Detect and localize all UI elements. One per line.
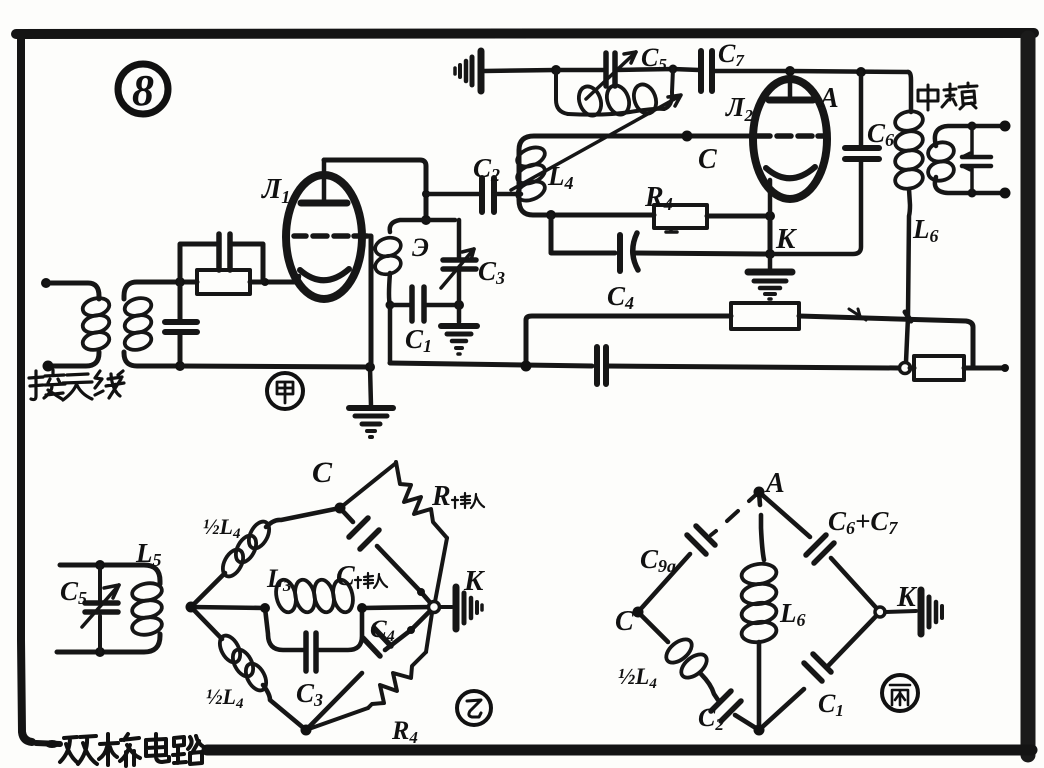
circled jia label: [267, 373, 303, 409]
C4 bridge plates: [363, 628, 391, 656]
wire grid bus top: [519, 136, 753, 215]
junction bottom wire: [175, 361, 185, 371]
C5 plates: [85, 603, 118, 612]
wire anode bus to IF: [790, 71, 908, 72]
svg-text:½L4: ½L4: [203, 514, 241, 542]
svg-text:A: A: [764, 468, 785, 499]
cathode filament arc: [300, 269, 349, 280]
junction C1 left: [386, 301, 395, 310]
junction C5 bottom: [95, 647, 105, 657]
C4 curved plates: [617, 235, 623, 271]
capacitor C1 plates: [412, 287, 424, 321]
char 双: [60, 736, 97, 764]
ground below K: [748, 254, 792, 299]
label zhongpin: [918, 83, 977, 110]
bridge B (yi): [186, 462, 483, 736]
middle edge right segment: [362, 607, 434, 608]
capacitor grid bypass plates: [219, 234, 230, 270]
C6+C7 plates: [806, 535, 834, 563]
char 路: [173, 736, 204, 764]
top tank ground: [455, 51, 556, 91]
char 中: [918, 85, 938, 110]
junction K top: [765, 211, 775, 221]
svg-text:L3: L3: [266, 564, 292, 595]
svg-text:Э: Э: [412, 233, 429, 262]
wire C5 to C7: [615, 69, 699, 70]
svg-text:C: C: [698, 144, 717, 175]
char 频: [942, 84, 956, 107]
B+ feed loop: [526, 303, 973, 368]
svg-text:C5: C5: [641, 43, 667, 74]
C6 plates: [845, 148, 879, 159]
tube envelope: [286, 175, 362, 299]
L5 winding: [131, 581, 163, 603]
wire bypass cap loop right: [230, 244, 263, 281]
tap arrow through L4: [511, 96, 680, 190]
junction K mid: [765, 249, 775, 259]
cathode arc: [766, 167, 815, 178]
anode plate: [301, 200, 347, 207]
triode tube V1: [286, 160, 367, 299]
svg-text:C1: C1: [818, 689, 844, 720]
svg-text:Л1: Л1: [261, 174, 290, 207]
svg-text:L6: L6: [912, 214, 939, 246]
svg-text:C: C: [615, 606, 634, 637]
capacitor C7: [701, 51, 790, 91]
char 天: [63, 374, 92, 400]
edge bottom-right direct with C4 cap: [306, 607, 434, 730]
ground at K sideways: [885, 611, 916, 612]
tank coil under C5: [556, 69, 673, 119]
anode lead: [788, 71, 793, 100]
coil L4 with frame: [511, 95, 753, 220]
oscillator coil L3e: [373, 220, 464, 363]
bridge C (bing): [633, 487, 943, 736]
wire upper feed line: [526, 316, 731, 366]
junction anode/C2: [422, 190, 430, 198]
svg-text:R: R: [431, 481, 451, 512]
IF transformer secondary: [926, 121, 1010, 199]
junction anode bus: [785, 66, 795, 76]
svg-text:C4: C4: [607, 281, 634, 313]
C3 arrow: [441, 249, 474, 288]
svg-text:C4: C4: [370, 616, 395, 645]
svg-text:½L4: ½L4: [618, 664, 657, 692]
svg-text:C5: C5: [60, 576, 87, 608]
ground below C3: [441, 326, 477, 354]
triode tube V2: [753, 71, 827, 216]
coil winding: [373, 235, 403, 259]
wire antenna bottom lead: [49, 352, 99, 366]
C5 plates: [606, 53, 615, 86]
resistor output: [914, 356, 964, 380]
char 接: [29, 371, 43, 400]
wire tank top: [60, 565, 160, 584]
wire antenna top lead: [46, 283, 99, 299]
trimmer plates with arrows: [962, 157, 991, 166]
edge bottom to K with C1: [759, 612, 880, 730]
grid leak resistor: [165, 234, 370, 371]
C2 plates: [482, 178, 494, 212]
capacitor C6: [770, 72, 879, 254]
edge A to K with C6+C7: [759, 492, 880, 612]
cathode lead down: [768, 180, 773, 216]
C1 bridge plates: [804, 654, 831, 681]
capacitor cathode shunt plates: [165, 322, 197, 332]
edge A to C9a dashed: [711, 492, 759, 535]
wire secondary top: [935, 126, 1004, 146]
resistor feed: [731, 303, 799, 329]
svg-text:R4: R4: [391, 716, 418, 747]
wire bypass cap loop left: [180, 244, 219, 282]
C2 bridge plates: [711, 691, 741, 721]
capacitor bus coupling plates: [597, 347, 606, 384]
grid wire vertical from tube: [367, 236, 371, 367]
svg-text:L5: L5: [135, 538, 162, 570]
wire resistor to L6 drop: [799, 316, 973, 368]
tick mark on feed line: [849, 309, 866, 320]
wire secondary top to grid line: [124, 282, 197, 299]
svg-text:L4: L4: [547, 161, 574, 193]
wire K vertical: [768, 216, 773, 254]
C9a plates: [687, 526, 715, 554]
grid dashes: [294, 233, 367, 239]
svg-text:K: K: [896, 582, 918, 613]
node dots: [186, 602, 197, 613]
ground at K sideways: [440, 605, 452, 609]
wire osc bottom drop: [388, 305, 393, 363]
wire tank bottom: [57, 634, 160, 652]
wire C5 branch: [98, 565, 102, 652]
circled bing label: [882, 675, 918, 711]
edge C9a to C: [638, 554, 690, 612]
inductor secondary winding: [123, 295, 153, 318]
wire bottom bus left: [390, 363, 592, 366]
wire C1 right lead: [424, 303, 459, 308]
IF transformer primary L6: [893, 72, 924, 316]
circled yi label: [457, 691, 491, 725]
antenna terminal top: [41, 278, 51, 288]
wire C7 to anode bus: [712, 69, 790, 74]
wire secondary bottom: [935, 177, 1004, 193]
wire connector to resistor: [910, 366, 914, 371]
bottom bus line: [390, 347, 1009, 384]
secondary winding: [926, 140, 955, 164]
junction trimmer top: [968, 122, 977, 131]
L4 winding loops: [514, 144, 547, 171]
wire coil bottom to C1: [389, 273, 390, 305]
svg-text:R4: R4: [644, 182, 673, 214]
svg-text:Л2: Л2: [725, 92, 754, 125]
junction osc branch: [421, 215, 431, 225]
node K open: [875, 607, 885, 617]
char 电: [146, 734, 169, 762]
svg-text:K: K: [775, 223, 797, 255]
output terminal bottom: [1000, 188, 1011, 199]
C input plates: [349, 518, 379, 549]
junction dot on C4 edge: [407, 626, 415, 634]
svg-text:C1: C1: [405, 324, 432, 356]
tube envelope: [753, 79, 827, 199]
capacitor C4 feedback: [551, 215, 775, 271]
middle edge left segment: [191, 607, 265, 608]
svg-text:C: C: [312, 456, 333, 489]
svg-text:C6+C7: C6+C7: [828, 506, 898, 538]
outer path R4: [306, 708, 368, 730]
label shuangqiao dianlu: [60, 734, 204, 766]
cathode lead to resistor: [298, 276, 299, 282]
C3 loop below: [265, 608, 362, 650]
svg-text:L6: L6: [779, 598, 806, 630]
svg-text:C2: C2: [473, 153, 500, 185]
svg-text:C7: C7: [718, 39, 745, 70]
node A dot: [754, 487, 765, 498]
C3 plates: [306, 633, 316, 671]
node junction on grid wire: [175, 277, 185, 287]
C5 arrow: [82, 585, 119, 627]
svg-text:½L4: ½L4: [206, 684, 244, 712]
junction bus/feed: [521, 361, 532, 372]
anode plate: [769, 97, 813, 104]
char 线: [95, 371, 124, 398]
wire R4 to K: [707, 214, 770, 219]
inductor primary winding: [81, 295, 111, 318]
svg-text:C2: C2: [698, 703, 724, 734]
junction C5 top: [95, 560, 105, 570]
svg-text:C: C: [336, 561, 355, 592]
node C dot: [633, 607, 644, 618]
edge bottom-left with half L4 coil: [191, 607, 222, 639]
antenna terminal bottom: [43, 361, 54, 372]
variable capacitor C5: [556, 52, 699, 99]
svg-text:C3: C3: [478, 256, 505, 288]
edge C to bottom with half L4 and C2: [638, 612, 668, 642]
connector open circle: [900, 363, 911, 374]
center branch L6: [759, 492, 764, 560]
wire top bus: [484, 70, 556, 71]
outer path R input: [340, 463, 396, 508]
wire C3 bottom: [457, 269, 462, 322]
C5 arrow: [586, 52, 636, 99]
wire into L6: [908, 72, 911, 112]
antenna input transformer: [41, 278, 197, 372]
wire to C5: [556, 68, 603, 73]
grid dashes: [756, 133, 824, 139]
svg-text:A: A: [818, 83, 839, 114]
wire bottom bus to ground junction: [180, 366, 370, 367]
wire secondary bottom: [124, 352, 180, 366]
junction L4 bottom: [546, 210, 556, 220]
wire L4 tap down: [551, 215, 615, 253]
capacitor C2: [426, 178, 521, 212]
junction dot on C edge: [417, 588, 425, 596]
anode lead: [322, 160, 327, 203]
wire C2 right lead: [494, 192, 521, 197]
resistor R4: [654, 205, 775, 254]
wire C4 to K: [635, 253, 770, 254]
node K open circle: [429, 602, 440, 613]
ground below grid return: [349, 362, 393, 437]
trimmer vertical wire: [970, 126, 974, 193]
wire anode top run: [324, 160, 431, 225]
svg-text:8: 8: [132, 66, 154, 115]
wire L6 bottom down: [908, 189, 910, 316]
svg-text:K: K: [463, 565, 485, 597]
tank L5 C5 bottom left: [57, 560, 163, 657]
junction feed/L6: [905, 312, 911, 321]
svg-text:C9a: C9a: [640, 544, 676, 576]
svg-text:C3: C3: [296, 678, 323, 710]
edge top-right direct with C input cap: [340, 508, 434, 607]
node C junction: [682, 131, 693, 142]
L6 winding: [893, 109, 924, 133]
label 接天线: [29, 370, 124, 400]
wire C2 left lead: [426, 192, 480, 197]
wire top of osc section: [390, 220, 455, 232]
junction top tank left: [551, 65, 561, 75]
edge top-left with half L4 coil: [191, 573, 225, 607]
char 桥: [99, 734, 140, 766]
wire shunt cap vertical: [178, 282, 183, 366]
junction C1 right: [454, 300, 464, 310]
wire C6 bottom to K line: [770, 159, 861, 254]
output terminal top: [1000, 121, 1011, 132]
variable capacitor C3: [441, 220, 476, 322]
wire resistor to output stub: [964, 366, 1003, 371]
figure number 8 badge: [118, 64, 168, 115]
L3 coil on middle edge: [273, 578, 298, 614]
wire resistor to tube cathode: [250, 280, 298, 285]
C3 plates: [443, 260, 476, 269]
wire bus cap to connector: [606, 366, 899, 368]
wire C1 left lead: [390, 303, 412, 308]
svg-text:C6: C6: [867, 118, 894, 150]
node bottom dot: [754, 725, 765, 736]
wire C6 top: [859, 72, 864, 146]
wire C3 top: [457, 220, 462, 258]
